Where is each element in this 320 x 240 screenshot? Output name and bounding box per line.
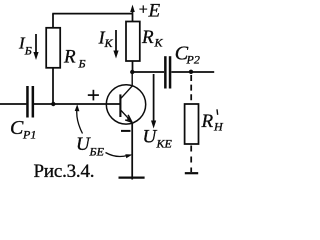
minus sign at emitter: [121, 130, 131, 132]
wire emitter down: [131, 123, 133, 180]
power +E arrow: [130, 5, 135, 14]
resistor R'Н load: [185, 104, 199, 144]
transistor VT circle: [106, 85, 145, 124]
node output junction: [189, 70, 193, 74]
load bottom terminal bar: [185, 172, 198, 174]
label IК: [98, 28, 114, 51]
wire RБ bottom stub: [52, 68, 54, 104]
svg-text:E: E: [148, 1, 161, 22]
transistor base bar: [119, 94, 121, 117]
label +E: [139, 1, 161, 22]
svg-text:R: R: [141, 27, 154, 48]
voltage arrow UКЕ: [151, 74, 156, 129]
current arrow IК: [113, 30, 118, 59]
svg-text:БЕ: БЕ: [89, 145, 105, 159]
label RБ: [63, 47, 86, 71]
svg-text:Р1: Р1: [22, 128, 36, 142]
wire output right segment: [171, 71, 214, 73]
label IБ: [18, 33, 32, 57]
svg-text:К: К: [154, 36, 164, 50]
wire output left segment: [133, 71, 165, 73]
node base junction: [51, 102, 55, 106]
svg-text:+: +: [139, 2, 148, 19]
svg-text:Рис.3.4.: Рис.3.4.: [34, 161, 95, 182]
label UБЕ: [76, 134, 105, 159]
svg-text:К: К: [104, 36, 114, 50]
wire top supply rail: [52, 13, 132, 15]
wire RК bottom stub: [132, 61, 134, 72]
capacitor CР1: [26, 86, 34, 118]
wire RК top stub: [132, 14, 134, 22]
svg-text:U: U: [143, 127, 158, 148]
dashed wire load top: [190, 75, 192, 104]
label RК: [141, 27, 164, 50]
ground bar: [119, 177, 145, 179]
label CР2: [175, 43, 200, 67]
current arrow IБ: [33, 34, 38, 60]
transistor collector lead: [121, 73, 132, 99]
capacitor CР2: [164, 56, 171, 88]
resistor RК: [126, 22, 140, 62]
label UКЕ: [143, 127, 173, 151]
svg-text:КЕ: КЕ: [156, 137, 173, 151]
transistor emitter lead: [121, 110, 132, 122]
svg-text:Р2: Р2: [186, 53, 200, 67]
wire RБ top stub: [52, 14, 54, 28]
svg-text:C: C: [10, 117, 24, 139]
dashed wire load bottom: [190, 146, 192, 173]
svg-text:Н: Н: [213, 120, 224, 134]
label R'Н: [201, 109, 225, 133]
svg-text:Б: Б: [24, 44, 32, 58]
resistor RБ: [46, 28, 60, 68]
plus sign at base: [88, 90, 99, 101]
label CР1: [10, 117, 36, 142]
node collector junction: [130, 70, 134, 74]
svg-text:R: R: [201, 111, 214, 132]
svg-text:R: R: [63, 47, 76, 68]
wire input segment: [0, 103, 26, 105]
svg-text:Б: Б: [78, 57, 86, 71]
voltage arrow UБЕ to base: [75, 104, 83, 133]
voltage arrow UБЕ to emitter: [106, 153, 133, 159]
wire base segment: [34, 103, 120, 105]
